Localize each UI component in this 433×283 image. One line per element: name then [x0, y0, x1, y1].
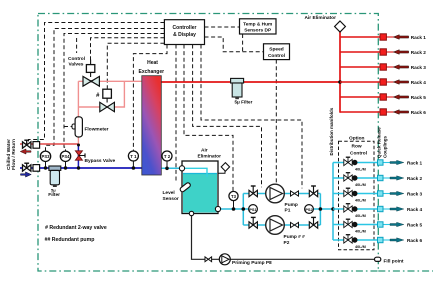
control valve V1 branch pipe (pink) [78, 80, 142, 82]
svg-text:Couplings: Couplings [383, 136, 388, 158]
svg-text:Filter: Filter [48, 192, 60, 198]
wire controller to pump branch A [193, 45, 262, 188]
svg-text:Rack 2: Rack 2 [407, 176, 423, 181]
pump discharge pipe to supply manifold (cyan) [313, 208, 333, 210]
pump P2 (redundant) [266, 216, 285, 235]
wire controller to temperature sensor T1 [133, 45, 167, 152]
pump branch B pipe (cyan) [243, 224, 320, 226]
svg-text:5μ: 5μ [51, 188, 56, 193]
priming pump P8 [219, 254, 230, 265]
air eliminator diamond (manifold) [335, 21, 346, 32]
wire controller to pump branch B [201, 45, 302, 189]
svg-text:40L/M: 40L/M [355, 214, 366, 218]
strainer filter on supply line [49, 166, 61, 187]
supply port coupling [33, 165, 40, 172]
svg-text:40L/M: 40L/M [355, 199, 366, 203]
svg-text:Control: Control [268, 53, 285, 59]
svg-text:Exchanger: Exchanger [139, 69, 165, 75]
control valve V2 with actuator (redundant #) [100, 89, 115, 112]
return branches from racks (red rows) [340, 34, 426, 115]
filter on hot main line [231, 78, 244, 99]
pressure sensor PS2 [305, 205, 314, 214]
svg-text:Controller: Controller [173, 25, 197, 31]
hot return main pipe (red) to manifold [161, 81, 341, 83]
svg-text:PS4: PS4 [62, 154, 71, 159]
supply flow arrow (blue, in) [21, 172, 32, 177]
wire controller to flowmeter and sensor PS4 [64, 34, 164, 152]
svg-text:Air Eliminator: Air Eliminator [305, 15, 337, 21]
svg-text:5μ Filter: 5μ Filter [235, 100, 253, 105]
svg-text:Flow / Return: Flow / Return [11, 139, 17, 170]
svg-text:Control: Control [68, 56, 85, 62]
svg-text:T 2: T 2 [164, 154, 171, 159]
supply branch rack 5 [333, 219, 423, 233]
pump P1 [266, 184, 285, 203]
svg-text:P2: P2 [284, 240, 290, 246]
svg-text:Eliminator: Eliminator [198, 154, 222, 160]
svg-text:Heat: Heat [147, 60, 158, 66]
supply branch rack 1 [333, 157, 423, 171]
temperature sensor T3 [229, 191, 238, 209]
svg-text:Control: Control [350, 150, 367, 156]
svg-text:Rack 4: Rack 4 [407, 207, 423, 212]
svg-text:PS3: PS3 [42, 154, 51, 159]
supply branch rack 4 [333, 204, 423, 218]
coolant pipe heat exchanger to tank (cyan) [161, 167, 183, 169]
controller box [164, 20, 204, 45]
svg-text:T 1: T 1 [130, 154, 137, 159]
svg-text:PS1: PS1 [249, 207, 257, 212]
wire controller to temperature sensor T3 [184, 45, 233, 192]
tank drain port [189, 211, 193, 215]
svg-text:Pump # #: Pump # # [284, 234, 306, 240]
svg-text:40L/M: 40L/M [355, 183, 366, 187]
pump branch A pipe (cyan) [243, 193, 320, 195]
svg-text:Sensors DP: Sensors DP [244, 28, 272, 34]
svg-text:Row: Row [352, 143, 362, 149]
inlet isolation valve (return line) [23, 140, 31, 148]
svg-text:Priming Pump P8: Priming Pump P8 [232, 260, 272, 266]
wire controller to temp/hum sensors [205, 26, 240, 28]
svg-text:Rack 6: Rack 6 [411, 110, 427, 115]
pump branch B inlet valve [249, 217, 257, 228]
flowmeter [72, 124, 76, 129]
return distribution manifold pipe (red) [339, 31, 341, 113]
pump branch headers (cyan) [243, 194, 320, 226]
svg-text:T3: T3 [231, 194, 237, 199]
pump branch A inlet valve [249, 186, 257, 197]
svg-text:& Display: & Display [173, 32, 196, 38]
svg-text:40L/M: 40L/M [355, 230, 366, 234]
svg-text:Quick Release: Quick Release [377, 127, 382, 158]
return branch rack 4 [340, 79, 426, 85]
pressure sensor PS4 [60, 151, 70, 168]
speed control box [264, 44, 290, 60]
temperature sensor T1 [128, 151, 138, 168]
svg-text:Sensor: Sensor [163, 196, 179, 202]
pressure sensor PS3 [40, 151, 50, 168]
junction dots pump suction [232, 80, 342, 211]
reservoir tank [182, 161, 218, 214]
chilled water supply pipe (blue) [20, 167, 143, 169]
fill point port [375, 257, 381, 261]
svg-text:PS2: PS2 [305, 207, 313, 212]
pump branch B check valve [291, 222, 299, 227]
svg-text:## Redundant pump: ## Redundant pump [45, 237, 95, 243]
priming line check valve [205, 257, 212, 262]
svg-text:Level: Level [163, 190, 175, 196]
svg-text:Rack 5: Rack 5 [407, 223, 423, 228]
svg-text:# Redundant 2-way valve: # Redundant 2-way valve [45, 225, 107, 231]
tank air eliminator diamond [218, 163, 230, 174]
flowmeter riser pipe (pink) [77, 81, 79, 144]
wire stub to control valve group [76, 38, 78, 53]
svg-text:Rack 2: Rack 2 [411, 50, 427, 55]
svg-text:40L/M: 40L/M [355, 245, 366, 249]
temperature sensor T2 [162, 151, 172, 168]
temp and humidity sensors box [240, 19, 277, 34]
svg-text:Rack 1: Rack 1 [407, 161, 423, 166]
return port coupling [33, 142, 40, 149]
svg-text:Pump: Pump [285, 202, 298, 208]
bypass valve (red) [75, 151, 85, 160]
return branch rack 2 [340, 49, 426, 55]
level sensor probe [179, 182, 191, 193]
return branch rack 3 [340, 64, 426, 70]
pump branch A check valve [291, 191, 299, 196]
svg-text:Rack 3: Rack 3 [411, 65, 427, 70]
heat exchanger [142, 76, 162, 175]
return branch rack 1 [340, 34, 426, 40]
svg-text:Fill point: Fill point [384, 258, 404, 264]
svg-text:Bypass Valve: Bypass Valve [85, 158, 116, 164]
wire controller to speed control [205, 34, 264, 52]
priming pipe (black) [192, 214, 375, 260]
return branch rack 6 [340, 109, 426, 115]
supply branch rack 3 [333, 188, 423, 202]
supply branch rack 2 [333, 173, 423, 187]
pressure sensor PS1 [249, 205, 258, 214]
svg-text:Air: Air [201, 148, 208, 154]
wire controller to left trunk 1 (inlet valve) [29, 23, 165, 143]
supply branch rack 6 [333, 235, 423, 249]
svg-text:Rack 3: Rack 3 [407, 192, 423, 197]
wire controller to left trunk 2 (sensor PS3) [46, 29, 165, 152]
chilled water return pipe (red, to building) [20, 143, 79, 145]
svg-text:Rack 4: Rack 4 [411, 80, 427, 85]
svg-text:Rack 6: Rack 6 [407, 238, 423, 243]
bypass riser pipe (blue) [77, 144, 79, 168]
wire controller to control valve V2 [107, 43, 164, 89]
svg-text:Rack 1: Rack 1 [411, 35, 427, 40]
svg-text:P1: P1 [285, 208, 291, 214]
svg-text:Valves: Valves [69, 62, 84, 68]
svg-text:Option: Option [349, 136, 365, 142]
supply branches to racks (cyan rows) [333, 157, 423, 249]
control valve V2 branch pipe (pink) [78, 81, 124, 107]
return flow arrow (red, out) [20, 149, 31, 154]
control valve V1 with actuator [83, 60, 99, 87]
pump branch B outlet valve [309, 217, 317, 228]
svg-text:Distribution manifolds: Distribution manifolds [329, 107, 334, 155]
wire controller to level sensor [175, 45, 177, 183]
svg-text:40L/M: 40L/M [355, 168, 366, 172]
wire controller to control valve V1 [91, 38, 165, 63]
return branch rack 5 [340, 94, 426, 100]
junction dots on supply line [44, 144, 169, 171]
supply isolation valve [23, 163, 31, 171]
pump branch A outlet valve [309, 186, 317, 197]
svg-text:Temp & Hum: Temp & Hum [243, 21, 272, 27]
wire speed control to pump P1 [275, 60, 277, 184]
svg-text:Flowmeter: Flowmeter [85, 127, 109, 133]
tank outlet port [215, 206, 220, 211]
svg-text:Speed: Speed [269, 47, 283, 53]
option box dashed [339, 141, 375, 250]
supply distribution manifold pipe (cyan) [332, 163, 334, 241]
tank inlet port [179, 166, 184, 171]
svg-text:Rack 5: Rack 5 [411, 95, 427, 100]
pump suction pipe (cyan) [218, 208, 249, 210]
